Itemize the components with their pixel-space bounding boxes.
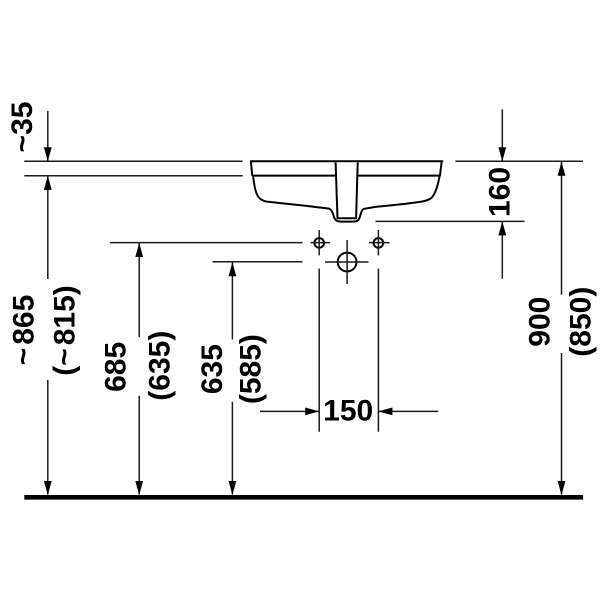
svg-text:(850): (850) — [564, 287, 597, 357]
svg-text:160: 160 — [483, 167, 516, 217]
svg-text:(585): (585) — [235, 334, 268, 404]
svg-text:635: 635 — [196, 344, 229, 394]
svg-text:685: 685 — [100, 342, 133, 392]
svg-text:~865: ~865 — [7, 295, 40, 366]
svg-text:(~815): (~815) — [48, 285, 81, 376]
svg-text:~35: ~35 — [6, 102, 39, 153]
svg-text:900: 900 — [524, 297, 557, 347]
svg-text:(635): (635) — [143, 331, 176, 401]
svg-text:150: 150 — [323, 395, 373, 428]
